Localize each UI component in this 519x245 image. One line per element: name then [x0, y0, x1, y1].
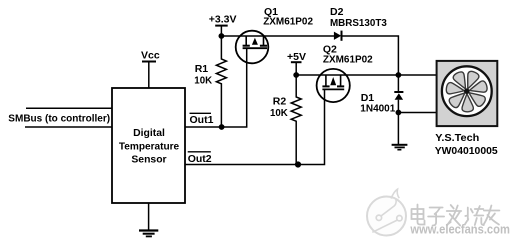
- IC U1 Digital Temperature Sensor body: [112, 88, 185, 203]
- wire top rail +3.3V to D2 anode: [221, 35, 334, 37]
- node junction rail/Q2/fan: [396, 72, 402, 78]
- svg-text:R2: R2: [273, 95, 287, 107]
- wire Out1 to Q1 gate: [185, 48, 247, 127]
- svg-text:10K: 10K: [194, 74, 212, 86]
- svg-text:YW04010005: YW04010005: [435, 145, 498, 157]
- wire fan - lead: [398, 112, 436, 114]
- svg-text:SMBus (to controller): SMBus (to controller): [8, 113, 110, 124]
- watermark logo circle: [367, 189, 406, 235]
- wire fan + lead: [398, 74, 436, 76]
- wire +5V node through Q2 to rail: [296, 74, 398, 76]
- power +3.3V rail bar: [215, 25, 228, 27]
- node junction +3.3V/R1: [219, 33, 225, 39]
- diode D2 MBRS130T3: [334, 31, 342, 41]
- svg-text:+3.3V: +3.3V: [209, 13, 237, 25]
- wire Out2 to Q2 gate: [185, 89, 325, 164]
- IC U1 label: [119, 128, 180, 166]
- fan rotor blades: [446, 70, 489, 112]
- wire +3.3V stem: [220, 26, 222, 36]
- wire SMBus bus top: [26, 107, 113, 109]
- svg-text:Sensor: Sensor: [131, 155, 166, 166]
- svg-text:Temperature: Temperature: [119, 141, 180, 152]
- node junction D1/fan-/ground: [396, 110, 402, 116]
- resistor R2: [291, 75, 301, 165]
- transistor Q1 ZXM61P02 (P-MOSFET): [236, 31, 269, 64]
- svg-text:ZXM61P02: ZXM61P02: [263, 16, 313, 28]
- wire Vcc stem: [148, 62, 150, 89]
- svg-text:Out1: Out1: [190, 114, 214, 126]
- node junction +5V/R2: [293, 72, 299, 78]
- svg-text:R1: R1: [195, 63, 209, 75]
- svg-text:MBRS130T3: MBRS130T3: [330, 17, 387, 29]
- fan M1 Y.S.Tech body: [437, 61, 498, 126]
- watermark title 电子发烧友 (drawn strokes): [412, 205, 500, 226]
- svg-text:Digital: Digital: [133, 128, 165, 139]
- wire rail through D1 down to ground node: [397, 75, 399, 92]
- wire D2 cathode to right rail corner, down to +5V node: [343, 36, 399, 75]
- svg-text:ZXM61P02: ZXM61P02: [323, 53, 373, 65]
- node Out1 label (active low): [190, 113, 214, 126]
- diode D1 1N4001 (flyback, cathode up): [394, 92, 403, 100]
- ground below D1: [392, 113, 408, 150]
- svg-text:Vcc: Vcc: [141, 50, 160, 62]
- ground below sensor: [139, 203, 158, 236]
- node junction Out1/R1: [219, 124, 225, 130]
- wire +5V stem: [295, 62, 297, 75]
- svg-text:1N4001: 1N4001: [360, 103, 395, 115]
- transistor Q2 ZXM61P02 (P-MOSFET): [317, 69, 350, 102]
- node Out2 label (active low): [188, 152, 212, 165]
- node junction Out2/R2: [295, 161, 301, 167]
- power Vcc rail bar: [142, 61, 156, 63]
- power +5V rail bar: [291, 61, 302, 63]
- svg-text:10K: 10K: [270, 107, 288, 119]
- resistor R1: [216, 36, 226, 127]
- svg-text:Y.S.Tech: Y.S.Tech: [435, 132, 479, 144]
- wire SMBus bus bottom: [25, 126, 113, 128]
- svg-text:Out2: Out2: [188, 153, 212, 165]
- svg-text:www.elecfans.com: www.elecfans.com: [410, 222, 510, 236]
